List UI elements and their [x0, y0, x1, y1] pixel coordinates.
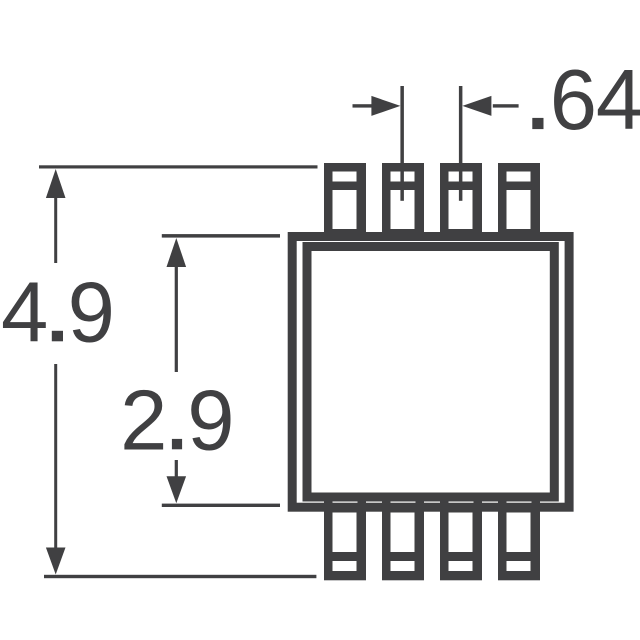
svg-text:9: 9 [68, 265, 115, 360]
svg-text:2: 2 [120, 373, 167, 468]
svg-text:9: 9 [187, 373, 234, 468]
svg-text:4: 4 [596, 53, 640, 148]
svg-text:4: 4 [1, 265, 48, 360]
svg-text:6: 6 [550, 53, 597, 148]
